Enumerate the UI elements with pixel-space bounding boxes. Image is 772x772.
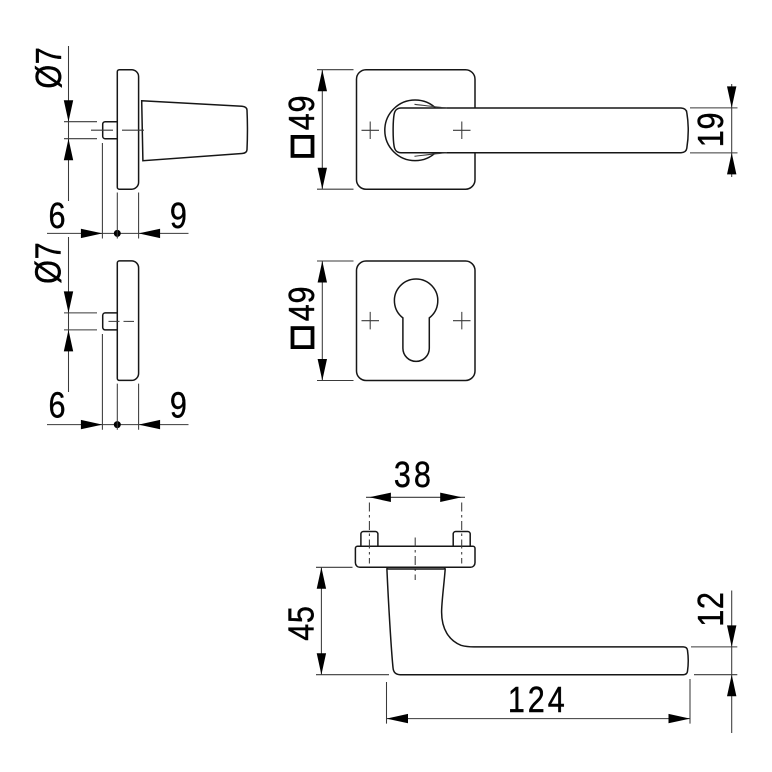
view2 spindle stub — [103, 313, 118, 330]
view3 ext lines 19 — [690, 108, 738, 153]
view5 arrow 45 top — [317, 567, 326, 589]
view5 arrow 38 left — [369, 493, 391, 502]
view5 handle outline — [387, 569, 688, 675]
view3 arrow 19 top — [727, 86, 736, 108]
view5 dim line 38 — [366, 496, 465, 498]
svg-text:9: 9 — [170, 386, 187, 426]
view5 ext lines 124 — [387, 679, 691, 724]
svg-text:124: 124 — [508, 681, 568, 721]
view3 neck flare lines — [415, 104, 448, 156]
view5 boss centerline right — [461, 503, 463, 564]
view5 ext lines 12 — [691, 647, 737, 675]
svg-text:Ø7: Ø7 — [29, 242, 69, 284]
view2 dim line 6/9 — [47, 424, 189, 426]
svg-text:9: 9 — [170, 197, 187, 237]
view4 arrow sq49 top — [318, 261, 327, 283]
view3 arrow 19 bottom — [727, 153, 736, 175]
view5 ext lines 45 — [316, 567, 389, 674]
view1 dim dot — [114, 230, 121, 237]
view3 screw cross left — [362, 122, 380, 140]
view2 ext lines d7 — [64, 313, 97, 330]
view5 boss centerline left — [368, 503, 370, 564]
view5 axis centerline — [414, 538, 416, 581]
svg-text:49: 49 — [283, 95, 323, 130]
view2 arrow d7 top — [64, 291, 73, 313]
view5 dim line 45 — [320, 567, 322, 674]
view3 arrow sq49 bottom — [318, 168, 327, 190]
view5 arrow 12 top — [727, 625, 736, 647]
view4 screw cross left — [362, 312, 380, 330]
view4 dim line sq49 — [321, 261, 323, 381]
view3 dim line sq49 — [321, 70, 323, 190]
view5 screw boss right — [453, 532, 470, 547]
view1 ext lines d7 — [64, 122, 97, 139]
view1 dim line diameter7 — [68, 46, 70, 201]
view2 dim line diameter7 — [68, 237, 70, 392]
view3 lever — [393, 108, 688, 153]
view2 ext lines 6/9 — [102, 334, 138, 430]
view4 arrow sq49 bottom — [318, 359, 327, 381]
svg-text:49: 49 — [283, 286, 323, 321]
svg-text:Ø7: Ø7 — [30, 47, 70, 89]
view4 screw cross right — [453, 312, 471, 330]
view2 arrow d7 bottom — [64, 330, 73, 352]
view2 rose side profile — [117, 261, 138, 381]
view1 centerline — [91, 129, 146, 131]
view5 rose flange slab — [355, 546, 475, 567]
svg-text:12: 12 — [692, 591, 732, 626]
view5 dim line 12 — [731, 591, 733, 734]
view5 arrow 124 right — [669, 714, 691, 723]
view1 spindle stub — [103, 122, 118, 139]
view1 arrow d7 bottom — [64, 139, 73, 161]
view1 ext lines 6/9 — [102, 143, 138, 239]
view1 arrow 9 — [139, 229, 161, 238]
view5 neck collar — [387, 567, 445, 569]
view5 arrow 124 left — [387, 714, 409, 723]
view3 collar circle — [385, 100, 446, 161]
view2 dim dot — [114, 421, 121, 428]
view4 square escutcheon — [357, 261, 476, 381]
view1 arrow d7 top — [64, 100, 73, 122]
view4 label square symbol — [293, 328, 313, 347]
view2 arrow 6 — [81, 420, 103, 429]
view5 arrow 12 bottom — [727, 675, 736, 697]
svg-text:19: 19 — [692, 112, 732, 147]
view1 rose side profile — [117, 70, 138, 190]
svg-text:38: 38 — [394, 456, 434, 496]
view5 arrow 45 bottom — [317, 653, 326, 675]
view5 dim line 124 — [387, 718, 691, 720]
view3 dim line 19 — [731, 84, 733, 177]
view1 grip end-on cone — [142, 101, 248, 161]
view3 label square symbol — [293, 137, 313, 156]
view5 screw boss left — [361, 532, 378, 547]
view1 dim line 6/9 — [47, 232, 189, 234]
view5 arrow 38 right — [440, 493, 462, 502]
svg-text:6: 6 — [48, 386, 65, 426]
view3 square rose — [357, 70, 476, 190]
view2 centerline — [109, 320, 135, 322]
view4 ext lines sq49 — [317, 261, 354, 381]
view1 arrow 6 — [81, 229, 103, 238]
view2 arrow 9 — [139, 420, 161, 429]
svg-text:45: 45 — [282, 605, 322, 640]
view4 euro profile hole — [394, 279, 437, 361]
svg-text:6: 6 — [48, 197, 65, 237]
view3 screw cross right — [453, 122, 471, 140]
view3 ext lines sq49 — [317, 70, 354, 190]
view3 arrow sq49 top — [318, 70, 327, 92]
